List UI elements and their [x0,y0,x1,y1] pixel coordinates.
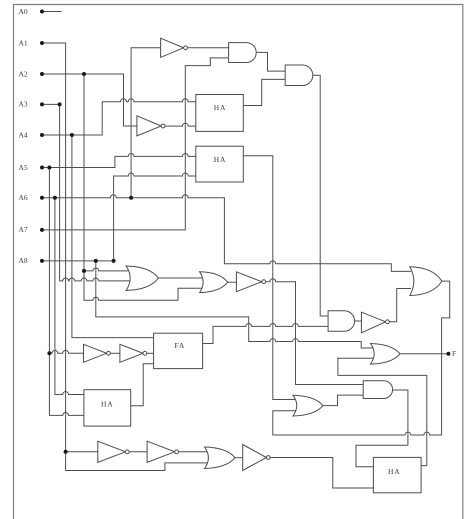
inverter U6 [120,344,143,362]
wire: OR3 output feedback path down and west with hops, riser to OR6 lower input [273,281,450,435]
junction: A4 drop [70,133,74,137]
wire: inverter U2 output to HA1 lower input with hop [165,123,196,126]
wire: inverter U7 output to U8 input [129,451,147,453]
junction: A8 drop [94,259,98,263]
wire: input A1 row and drop to bottom bypass, jog up into OR7 lower input [42,43,208,471]
wire: A4 branch drop to FA upper input [72,135,154,338]
OR gate OR1 [126,266,158,290]
junction: A8 riser [112,259,116,263]
inverter U9 [243,445,267,471]
half adder HA3 [84,390,131,426]
wire: input A6 row with hops, corner down, east, jog to OR3 upper input [42,195,411,272]
junction: A6 drop [53,196,57,200]
wire: A5 tap into inverter U5 input with hops [49,350,85,353]
svg-text:FA: FA [175,341,186,350]
junction: A3 drop [58,102,62,106]
svg-text:HA: HA [214,103,226,112]
svg-text:A2: A2 [19,69,28,78]
node: input A0 terminal [40,10,44,14]
wire: input A5 row, riser, east with hops into HA2 upper input [42,153,196,167]
inverter U5 [84,344,107,362]
wire: AND G4 output down, west, down into HA4 upper input [356,390,408,467]
node: input A1 terminal [40,41,44,45]
inverter U2 [137,116,161,136]
wire: A2 branch drop, east at y300 with hop, riser into OR2 lower input [84,74,206,300]
wire: OR2 output to inverter U3 input [228,281,237,283]
wire: input A3 row, drop, wiggly east line with 4 hops into OR1 lower input [42,104,131,281]
wire: input A4 row, riser, east with hops into HA1 upper input [42,99,196,135]
svg-text:A7: A7 [19,225,28,234]
OR gate OR7 [205,447,235,469]
junction: A2 net to OR1 [82,269,86,273]
svg-text:HA: HA [214,155,226,164]
junction: A6 to U1 riser [129,196,133,200]
svg-text:F: F [452,349,456,358]
wire: HA3 output riser to FA lower input [131,364,154,406]
wire: AND G1 output jog to AND G2 upper input [256,52,286,71]
node: output F terminal [446,352,450,356]
wire: HA2 output drop to OR6 upper input [243,156,296,400]
node: input A2 terminal [40,72,44,76]
wire: input A2 row to inverter U2 input [42,74,140,126]
AND gate G4 [363,381,392,399]
node: input A6 terminal [40,196,44,200]
wire: OR1 upper input from A2 net with hop [84,268,131,271]
OR gate OR3 [410,267,442,296]
junction: A5 drop [47,166,51,170]
wire: inverter U1 output to AND G1 upper input [187,47,229,49]
wire: OR5 output to node F [400,353,448,355]
inverter U7 [98,441,126,462]
wire: A8 riser to HA2 lower input with hops [114,173,196,261]
wire: inverter U8 output to OR7 upper input [179,451,208,453]
svg-text:HA: HA [101,400,113,409]
wire: input A0 stub [42,11,61,13]
AND gate G2 [285,65,313,86]
half adder HA2 [196,146,244,182]
wire: A5 branch drop to HA3 lower input with hop [49,168,84,416]
svg-text:A4: A4 [19,130,28,139]
node: input A4 terminal [40,133,44,137]
wire: FA output riser east with hops to AND G3 lower input [203,323,329,343]
wire: HA4 output feedback riser west riser to OR5 lower input [338,358,427,465]
wire: inverter U9 output drop east to HA4 lower input [271,458,374,489]
wire: inverter U3 output with hop, drop, east to AND G4 upper input [266,279,364,385]
half adder HA4 [373,457,421,492]
junction: A2 drop [82,72,86,76]
OR gate OR5 [371,344,401,365]
inverter U3 [236,272,261,292]
node: input A5 terminal [40,166,44,170]
node: input A3 terminal [40,102,44,106]
wire: inverter U5 output to U6 input [110,352,120,354]
wire: input A8 row [42,260,114,262]
half adder HA1 [196,95,244,132]
wire: input A7 row, riser, jog to AND G1 lower input [42,58,229,230]
inverter U8 [147,441,175,462]
svg-text:A1: A1 [19,38,28,47]
node: input A8 terminal [40,259,44,263]
inverter U1 [161,38,184,57]
svg-text:A3: A3 [19,100,28,109]
svg-text:A6: A6 [19,193,28,202]
OR gate OR6 [293,395,323,416]
wire: AND G3 output to inverter U4 input [355,320,362,322]
wire: OR6 output jog to AND G4 lower input [323,395,363,406]
svg-text:HA: HA [388,467,400,476]
wire: A6 riser to inverter U1 input [131,48,161,198]
inverter U4 [361,312,385,333]
AND gate G3 [328,311,354,332]
OR gate OR2 [200,272,228,293]
wire: inverter U6 output to FA middle input [147,352,154,354]
junction: A1 net to U7 [64,450,68,454]
wire: OR1 output to OR2 upper input [159,277,207,279]
wire: A1 net to inverter U7 input [66,451,99,453]
wire: OR7 output to inverter U9 input [235,457,243,459]
wire: inverter U4 output riser to OR3 lower input [390,289,411,322]
AND gate G1 [229,43,257,63]
node: input A7 terminal [40,228,44,232]
junction: A5 net to U5 [47,351,51,355]
svg-text:A5: A5 [19,163,28,172]
wire: AND G2 output drop to AND G3 upper input [313,75,329,316]
svg-text:A8: A8 [19,256,28,265]
wire: HA1 output riser to AND G2 lower input [243,79,286,105]
full adder FA [154,333,203,368]
wire: A6 branch drop to HA3 upper input with hop [55,198,85,395]
wire: A8 drop, east, down, east with hops, jog into OR5 upper input [96,261,374,348]
svg-text:A0: A0 [19,7,28,16]
